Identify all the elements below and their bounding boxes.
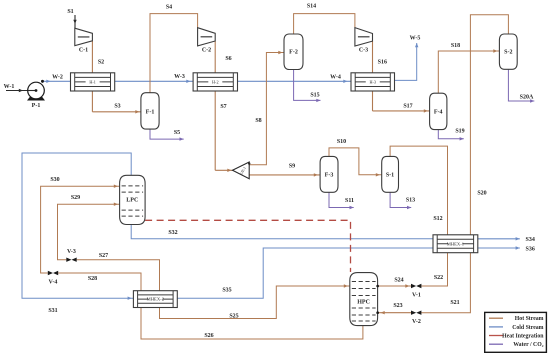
svg-text:Hot Stream: Hot Stream bbox=[515, 316, 544, 322]
svg-text:S10: S10 bbox=[337, 139, 346, 145]
wire S10 F-3 to S-1 bbox=[329, 148, 382, 177]
ejector EJE-1 bbox=[233, 162, 250, 179]
svg-text:S34: S34 bbox=[526, 237, 535, 243]
separator S-1 bbox=[382, 156, 399, 192]
node S31 label bbox=[48, 308, 57, 314]
node S19 label bbox=[455, 128, 464, 134]
multi-stream heat exchanger MHEX-2 bbox=[133, 291, 177, 308]
wire S7 H-2 to ejector bbox=[215, 91, 232, 172]
svg-text:F-2: F-2 bbox=[289, 50, 298, 56]
wire S21 MHEX-1 to V-2 bbox=[422, 253, 471, 313]
valve V-1 bbox=[411, 284, 421, 299]
flash drum F-1 bbox=[141, 93, 159, 129]
node S22 label bbox=[434, 275, 443, 281]
svg-text:S2: S2 bbox=[98, 60, 104, 66]
legend box bbox=[485, 312, 547, 352]
node S14 label bbox=[307, 4, 316, 10]
wire S27 MHEX-2 to V-3 bbox=[77, 260, 160, 291]
wire W-2 pump to H-1 bbox=[43, 80, 71, 83]
node S34 label bbox=[526, 237, 535, 243]
svg-text:S-1: S-1 bbox=[386, 173, 394, 179]
wire S1 feed to C-1 bbox=[73, 15, 76, 28]
wire S4 F-1 to C-2 bbox=[150, 14, 198, 93]
node W-2 label bbox=[52, 74, 63, 80]
node HPC feed junctions bbox=[28, 80, 379, 314]
node S24 label bbox=[394, 278, 403, 284]
svg-text:F-4: F-4 bbox=[434, 110, 443, 116]
svg-text:W-2: W-2 bbox=[52, 74, 63, 80]
svg-text:H-3: H-3 bbox=[369, 80, 376, 85]
node S12 label bbox=[433, 216, 442, 222]
node S27 label bbox=[99, 253, 108, 259]
svg-text:S4: S4 bbox=[166, 5, 172, 11]
svg-text:S29: S29 bbox=[71, 195, 80, 201]
svg-text:S31: S31 bbox=[48, 308, 57, 314]
valve V-2 bbox=[411, 311, 421, 325]
svg-text:S16: S16 bbox=[378, 59, 387, 65]
wire S18 F-4 to S-2 bbox=[438, 49, 499, 93]
svg-text:V-3: V-3 bbox=[67, 249, 76, 255]
wire W-4 H-2 to H-3 bbox=[238, 80, 352, 83]
wire S17 H-3 to F-4 bbox=[373, 91, 430, 113]
wire S11 F-3 bottom purge bbox=[329, 192, 354, 209]
node S32 label bbox=[168, 230, 177, 236]
multi-stream heat exchanger MHEX-1 bbox=[433, 235, 478, 253]
node S13 label bbox=[406, 198, 415, 204]
wire S5 F-1 bottom purge bbox=[150, 129, 184, 141]
svg-text:S36: S36 bbox=[526, 247, 535, 253]
wire S15 F-2 bottom purge bbox=[294, 70, 321, 103]
svg-text:W-3: W-3 bbox=[174, 74, 185, 80]
svg-text:V-1: V-1 bbox=[412, 293, 421, 299]
node S28 label bbox=[88, 276, 97, 282]
svg-text:Cold Stream: Cold Stream bbox=[512, 325, 543, 331]
node S2 label bbox=[98, 60, 104, 66]
svg-text:S11: S11 bbox=[345, 198, 354, 204]
wire S16 C-3 to H-3 bbox=[372, 41, 374, 73]
svg-text:F-1: F-1 bbox=[146, 110, 155, 116]
svg-text:S20A: S20A bbox=[520, 94, 534, 100]
svg-text:S32: S32 bbox=[168, 230, 177, 236]
wire S2 C-1 to H-1 bbox=[91, 41, 93, 73]
svg-text:S28: S28 bbox=[88, 276, 97, 282]
svg-text:V-4: V-4 bbox=[49, 280, 58, 286]
svg-text:S21: S21 bbox=[450, 300, 459, 306]
wire S23 V-2 to HPC bbox=[376, 311, 411, 314]
svg-text:S6: S6 bbox=[225, 56, 231, 62]
svg-text:C-2: C-2 bbox=[202, 48, 211, 54]
node W-2 pump outlet junction bbox=[41, 80, 44, 83]
node W-5 label bbox=[410, 35, 421, 41]
svg-text:H-2: H-2 bbox=[212, 80, 219, 85]
node S35 label bbox=[222, 288, 231, 294]
wire S30 V-4 to LPC bbox=[41, 185, 120, 274]
flash drum F-4 bbox=[430, 93, 447, 129]
compressor C-3 bbox=[355, 28, 373, 54]
node W-3 label bbox=[174, 74, 185, 80]
wire S26 HPC to MHEX-2 bbox=[141, 308, 363, 340]
wire S20 S-2 to MHEX-1 bbox=[470, 15, 508, 235]
wire S9 ejector to F-3 bbox=[249, 173, 320, 176]
node S11 label bbox=[345, 198, 354, 204]
node S20 label bbox=[477, 191, 486, 197]
pump P-1 bbox=[27, 82, 45, 109]
column LPC bbox=[120, 175, 146, 224]
wire S19 F-4 bottom purge bbox=[438, 130, 464, 141]
wire S6 C-2 to H-2 bbox=[214, 41, 216, 73]
node S20A label bbox=[520, 94, 534, 100]
wire S36 MHEX-1 cold outlet bbox=[478, 246, 520, 249]
node S15 label bbox=[310, 92, 319, 98]
svg-text:W-1: W-1 bbox=[4, 84, 15, 90]
compressor C-2 bbox=[198, 28, 216, 54]
svg-text:S35: S35 bbox=[222, 288, 231, 294]
flash drum F-3 bbox=[320, 156, 338, 192]
node W-1 label bbox=[4, 84, 15, 90]
svg-text:LPC: LPC bbox=[126, 198, 138, 204]
node S8 label bbox=[255, 118, 261, 124]
node S16 label bbox=[378, 59, 387, 65]
svg-text:S22: S22 bbox=[434, 275, 443, 281]
wire S14 F-2 to C-3 bbox=[294, 14, 355, 34]
wire S3 H-1 to F-1 bbox=[92, 91, 140, 114]
node S6 label bbox=[225, 56, 231, 62]
svg-text:MHEX-1: MHEX-1 bbox=[447, 241, 465, 246]
node S1 label bbox=[67, 9, 73, 15]
svg-text:S7: S7 bbox=[220, 104, 226, 110]
svg-text:S17: S17 bbox=[403, 103, 412, 109]
valve V-3 bbox=[66, 249, 76, 262]
wire W-5 H-3 outlet bbox=[395, 43, 419, 80]
wire heat integration dashed LPC to HPC bbox=[145, 220, 350, 272]
svg-text:HPC: HPC bbox=[357, 300, 370, 306]
wire S20A S-2 bottom product bbox=[508, 69, 534, 102]
node S26 label bbox=[204, 333, 213, 339]
node S21 label bbox=[450, 300, 459, 306]
svg-text:C-1: C-1 bbox=[79, 48, 88, 54]
svg-text:S8: S8 bbox=[255, 118, 261, 124]
node S30 label bbox=[50, 177, 59, 183]
wire S22 MHEX-1 to V-1 bbox=[422, 253, 448, 286]
node S10 label bbox=[337, 139, 346, 145]
node S9 label bbox=[289, 163, 295, 169]
svg-text:MHEX-2: MHEX-2 bbox=[147, 297, 165, 302]
heat exchanger H-3 bbox=[351, 73, 395, 91]
node S29 label bbox=[71, 195, 80, 201]
svg-text:S5: S5 bbox=[174, 130, 180, 136]
wire W-1 feed to pump bbox=[6, 89, 37, 92]
node S18 label bbox=[451, 43, 460, 49]
svg-text:S19: S19 bbox=[455, 128, 464, 134]
node S5 label bbox=[174, 130, 180, 136]
svg-text:S26: S26 bbox=[204, 333, 213, 339]
svg-text:S14: S14 bbox=[307, 4, 316, 10]
wire S32 LPC bottom to MHEX-1 cold bbox=[131, 225, 433, 239]
svg-text:C-3: C-3 bbox=[359, 48, 368, 54]
valve V-4 bbox=[48, 271, 58, 286]
node S36 label bbox=[526, 247, 535, 253]
wire S13 S-1 bottom purge bbox=[390, 192, 411, 209]
compressor C-1 bbox=[75, 28, 93, 53]
svg-text:Heat Integration: Heat Integration bbox=[502, 334, 544, 340]
wire S29 V-3 to LPC bbox=[58, 203, 120, 260]
flash drum F-2 bbox=[284, 34, 303, 70]
svg-text:S12: S12 bbox=[433, 216, 442, 222]
svg-text:S-2: S-2 bbox=[504, 50, 512, 56]
wire S12 S-1 to MHEX-1 bbox=[390, 146, 447, 235]
column HPC bbox=[350, 273, 378, 326]
wire S25 MHEX-2 to HPC bbox=[160, 284, 350, 318]
node S25 label bbox=[229, 314, 238, 320]
wire S34 MHEX-1 cold outlet top bbox=[478, 237, 520, 240]
node S7 label bbox=[220, 104, 226, 110]
svg-text:S18: S18 bbox=[451, 43, 460, 49]
heat exchanger H-1 bbox=[71, 73, 115, 91]
node S17 label bbox=[403, 103, 412, 109]
svg-text:S15: S15 bbox=[310, 92, 319, 98]
svg-text:S27: S27 bbox=[99, 253, 108, 259]
svg-text:S25: S25 bbox=[229, 314, 238, 320]
separator S-2 bbox=[499, 34, 517, 69]
wire S28 MHEX-2 to V-4 bbox=[58, 273, 141, 291]
node S23 label bbox=[393, 303, 402, 309]
heat exchanger H-2 bbox=[193, 73, 237, 91]
svg-text:S30: S30 bbox=[50, 177, 59, 183]
svg-text:W-5: W-5 bbox=[410, 35, 421, 41]
node S3 label bbox=[114, 104, 120, 110]
svg-text:V-2: V-2 bbox=[412, 319, 421, 325]
svg-text:S24: S24 bbox=[394, 278, 403, 284]
svg-text:S13: S13 bbox=[406, 198, 415, 204]
node S4 label bbox=[166, 5, 172, 11]
svg-text:S9: S9 bbox=[289, 163, 295, 169]
wire S8 ejector to F-2 bbox=[249, 51, 284, 165]
wire S31 LPC to MHEX-2 cold loop bbox=[22, 153, 133, 300]
svg-text:S23: S23 bbox=[393, 303, 402, 309]
wire W-3 H-1 to H-2 bbox=[115, 80, 193, 83]
svg-text:H-1: H-1 bbox=[89, 80, 96, 85]
svg-text:S3: S3 bbox=[114, 104, 120, 110]
svg-text:F-3: F-3 bbox=[325, 173, 334, 179]
wire S24 HPC to V-1 bbox=[376, 284, 411, 287]
svg-text:W-4: W-4 bbox=[330, 74, 341, 80]
node W-4 label bbox=[330, 74, 341, 80]
svg-text:S1: S1 bbox=[67, 9, 73, 15]
svg-text:P-1: P-1 bbox=[32, 103, 41, 109]
svg-text:Water / CO₂: Water / CO₂ bbox=[513, 342, 544, 348]
svg-text:S20: S20 bbox=[477, 191, 486, 197]
wire S35 MHEX-2 to MHEX-1 cold bbox=[177, 248, 433, 298]
